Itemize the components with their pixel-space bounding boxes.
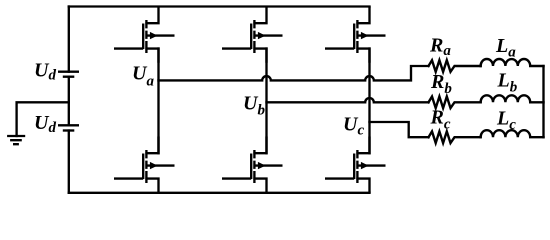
transistor Q4 bottom leg B <box>222 137 283 193</box>
transistor Q3 top leg B <box>222 7 283 63</box>
svg-text:Lb: Lb <box>497 70 518 96</box>
wire midpoint to ground <box>17 102 69 136</box>
node A phase line <box>159 66 429 80</box>
bottom rail <box>69 192 370 194</box>
resistor Ra <box>429 60 481 72</box>
node B phase line <box>267 98 429 102</box>
battery Ud lower <box>58 124 79 126</box>
wire neutral vertical <box>542 66 544 137</box>
svg-text:Rb: Rb <box>430 71 452 97</box>
transistor Q1 top leg A <box>114 7 175 63</box>
svg-text:La: La <box>495 35 516 60</box>
battery Ud upper <box>58 71 79 73</box>
svg-text:Rc: Rc <box>430 107 451 133</box>
node C phase line <box>370 122 429 137</box>
svg-text:Ud: Ud <box>34 112 56 136</box>
resistor Rb <box>429 97 481 109</box>
svg-text:Ua: Ua <box>132 62 154 89</box>
wire between batteries <box>68 77 70 126</box>
wire leg C vertical <box>368 49 370 154</box>
transistor Q6 bottom leg C <box>325 137 386 193</box>
top rail <box>69 5 370 7</box>
ground <box>7 136 25 144</box>
svg-text:Ud: Ud <box>34 60 56 84</box>
transistor Q5 top leg C <box>325 7 386 63</box>
inductor La <box>481 59 544 66</box>
wire DC-link left vertical top <box>68 7 70 72</box>
svg-text:Lc: Lc <box>496 107 516 133</box>
resistor Rc <box>429 131 481 143</box>
svg-text:Ub: Ub <box>243 93 265 119</box>
inductor Lc <box>481 130 544 137</box>
wire DC-link left vertical bottom <box>68 131 70 193</box>
transistor Q2 bottom leg A <box>114 137 175 193</box>
wire leg B vertical <box>265 49 267 154</box>
svg-text:Uc: Uc <box>343 114 364 139</box>
svg-text:Ra: Ra <box>429 34 451 59</box>
wire leg A vertical <box>157 49 159 154</box>
inductor Lb <box>481 95 544 102</box>
